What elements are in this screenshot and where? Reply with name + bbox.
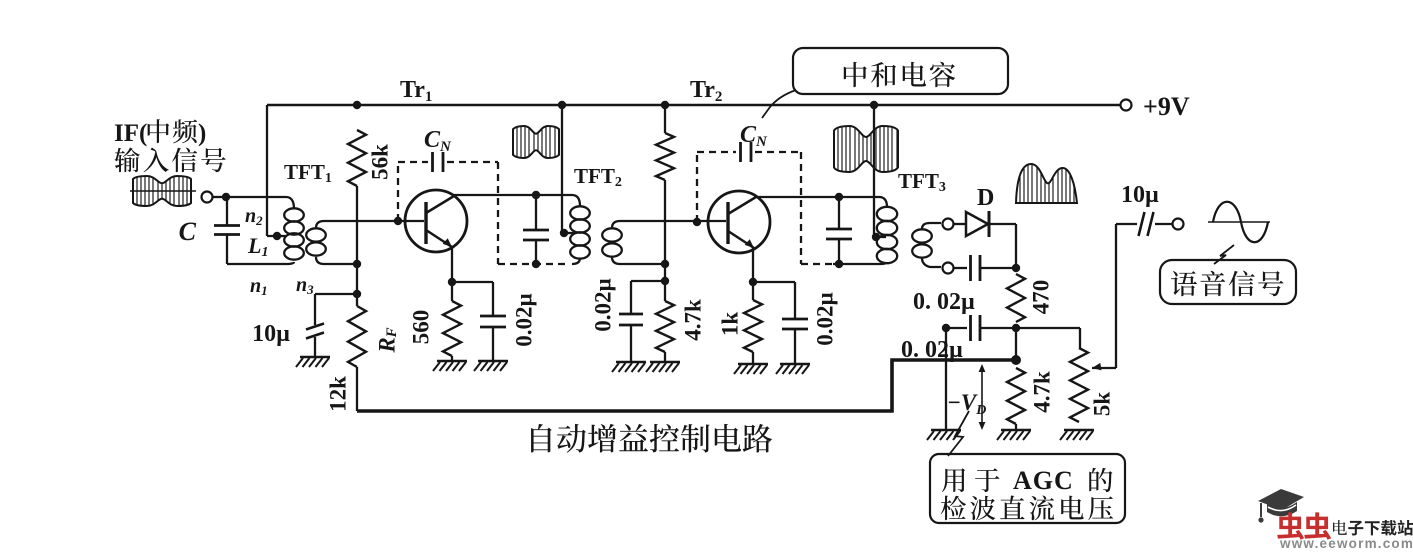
svg-text:560: 560 bbox=[408, 310, 433, 345]
svg-text:470: 470 bbox=[1028, 280, 1053, 315]
svg-text:AGC: AGC bbox=[1013, 466, 1074, 495]
svg-text:0.02µ: 0.02µ bbox=[812, 292, 837, 346]
svg-text:10µ: 10µ bbox=[1121, 182, 1159, 208]
svg-text:56k: 56k bbox=[367, 144, 392, 180]
svg-text:1k: 1k bbox=[717, 312, 742, 337]
svg-text:TFT1: TFT1 bbox=[284, 160, 332, 186]
svg-text:12k: 12k bbox=[325, 376, 350, 412]
svg-text:): ) bbox=[198, 120, 206, 147]
svg-text:D: D bbox=[977, 185, 994, 211]
svg-text:4.7k: 4.7k bbox=[1029, 371, 1054, 413]
svg-text:0. 02µ: 0. 02µ bbox=[913, 289, 975, 315]
svg-text:www.eeworm.com: www.eeworm.com bbox=[1279, 536, 1413, 549]
svg-text:0.02µ: 0.02µ bbox=[590, 278, 615, 332]
svg-text:10µ: 10µ bbox=[252, 321, 290, 347]
svg-text:0.02µ: 0.02µ bbox=[511, 293, 536, 347]
svg-text:TFT3: TFT3 bbox=[898, 169, 946, 195]
svg-text:IF(: IF( bbox=[114, 120, 147, 147]
svg-text:+9V: +9V bbox=[1143, 92, 1190, 121]
svg-text:TFT2: TFT2 bbox=[574, 164, 622, 190]
svg-text:C: C bbox=[179, 217, 197, 246]
svg-text:0. 02µ: 0. 02µ bbox=[901, 337, 963, 363]
svg-text:4.7k: 4.7k bbox=[680, 299, 705, 341]
svg-text:5k: 5k bbox=[1089, 392, 1114, 417]
